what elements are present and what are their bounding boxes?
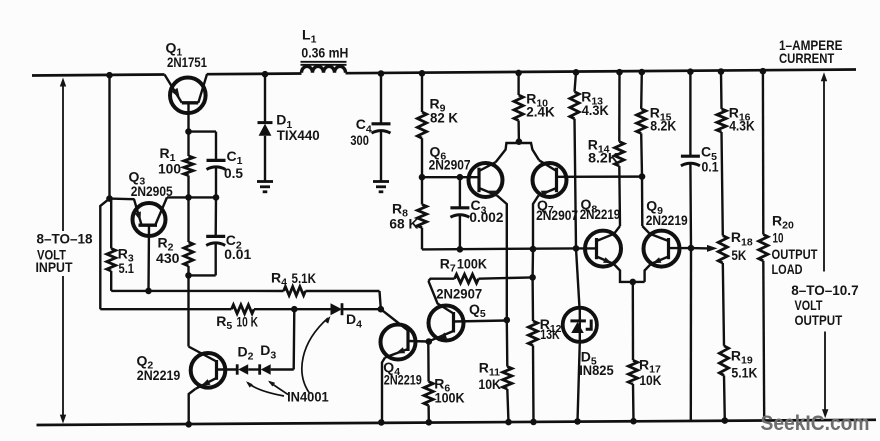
svg-text:2N2219: 2N2219 bbox=[646, 212, 688, 228]
svg-text:2N2907: 2N2907 bbox=[536, 207, 578, 223]
svg-text:0.5: 0.5 bbox=[224, 165, 243, 181]
svg-text:0.1: 0.1 bbox=[702, 159, 719, 175]
svg-text:82 K: 82 K bbox=[430, 110, 458, 126]
svg-text:100K: 100K bbox=[457, 256, 487, 272]
svg-text:10 K: 10 K bbox=[237, 313, 259, 329]
svg-text:8–TO–18: 8–TO–18 bbox=[37, 231, 93, 247]
svg-text:0.01: 0.01 bbox=[224, 246, 251, 262]
svg-text:5.1: 5.1 bbox=[119, 260, 135, 276]
svg-text:0.36 mH: 0.36 mH bbox=[301, 45, 348, 61]
svg-text:10: 10 bbox=[773, 230, 784, 246]
svg-text:INPUT: INPUT bbox=[36, 259, 73, 275]
svg-text:2.4K: 2.4K bbox=[526, 104, 555, 120]
svg-text:CURRENT: CURRENT bbox=[779, 50, 835, 66]
svg-text:VOLT: VOLT bbox=[795, 297, 823, 313]
svg-text:SeekIC.com: SeekIC.com bbox=[761, 411, 870, 435]
svg-text:2N2905: 2N2905 bbox=[131, 183, 173, 199]
svg-text:OUTPUT: OUTPUT bbox=[772, 246, 818, 262]
svg-text:2N2219: 2N2219 bbox=[137, 367, 181, 383]
svg-text:430: 430 bbox=[156, 250, 180, 266]
svg-text:68 K: 68 K bbox=[389, 216, 418, 232]
svg-text:5.1K: 5.1K bbox=[731, 364, 757, 380]
svg-text:IN825: IN825 bbox=[579, 362, 614, 378]
svg-text:0.002: 0.002 bbox=[469, 209, 503, 225]
svg-text:2N2219: 2N2219 bbox=[384, 372, 422, 388]
svg-text:8.2K: 8.2K bbox=[650, 118, 676, 134]
svg-text:LOAD: LOAD bbox=[772, 261, 803, 277]
svg-text:5.1K: 5.1K bbox=[292, 270, 317, 286]
svg-text:2N2907: 2N2907 bbox=[429, 157, 471, 173]
svg-text:5K: 5K bbox=[731, 247, 746, 263]
svg-text:8–TO–10.7: 8–TO–10.7 bbox=[791, 282, 859, 298]
svg-text:300: 300 bbox=[350, 132, 369, 148]
svg-text:4.3K: 4.3K bbox=[729, 118, 755, 134]
svg-text:10K: 10K bbox=[639, 372, 661, 388]
svg-text:100K: 100K bbox=[435, 390, 465, 406]
svg-text:TIX440: TIX440 bbox=[277, 127, 320, 143]
svg-text:8.2K: 8.2K bbox=[588, 150, 618, 166]
svg-text:2N2219: 2N2219 bbox=[580, 206, 621, 222]
svg-text:10K: 10K bbox=[478, 376, 501, 392]
svg-text:4.3K: 4.3K bbox=[582, 102, 609, 118]
svg-text:OUTPUT: OUTPUT bbox=[795, 312, 843, 328]
svg-text:100: 100 bbox=[158, 161, 181, 177]
svg-text:2N1751: 2N1751 bbox=[167, 54, 207, 70]
svg-text:2N2907: 2N2907 bbox=[436, 286, 482, 302]
svg-text:13K: 13K bbox=[540, 326, 560, 342]
